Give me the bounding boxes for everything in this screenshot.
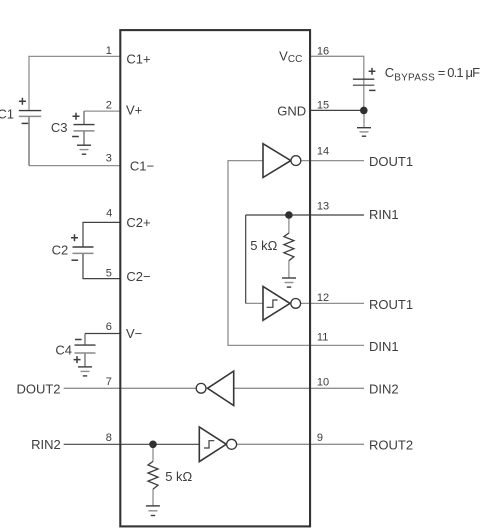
- svg-text:14: 14: [317, 145, 329, 157]
- svg-text:RIN1: RIN1: [369, 207, 399, 222]
- svg-text:C3: C3: [51, 120, 68, 135]
- svg-text:16: 16: [317, 45, 329, 57]
- svg-text:V−: V−: [126, 326, 142, 341]
- svg-text:7: 7: [106, 376, 112, 388]
- svg-text:4: 4: [106, 207, 112, 219]
- svg-text:DIN2: DIN2: [369, 381, 399, 396]
- svg-text:5: 5: [106, 268, 112, 280]
- svg-text:RIN2: RIN2: [31, 437, 61, 452]
- svg-text:8: 8: [106, 432, 112, 444]
- svg-text:C2+: C2+: [126, 215, 150, 230]
- svg-text:6: 6: [106, 321, 112, 333]
- svg-text:3: 3: [106, 153, 112, 165]
- svg-text:5 kΩ: 5 kΩ: [250, 238, 277, 253]
- svg-text:12: 12: [317, 292, 329, 304]
- svg-text:DOUT1: DOUT1: [369, 154, 413, 169]
- svg-text:5 kΩ: 5 kΩ: [165, 469, 192, 484]
- svg-text:ROUT2: ROUT2: [369, 437, 413, 452]
- svg-text:C2−: C2−: [126, 269, 150, 284]
- svg-text:C2: C2: [52, 243, 69, 258]
- svg-text:C4: C4: [55, 343, 72, 358]
- svg-text:1: 1: [106, 45, 112, 57]
- svg-text:CBYPASS = 0.1 μF: CBYPASS = 0.1 μF: [385, 65, 480, 83]
- svg-text:V+: V+: [126, 102, 142, 117]
- svg-text:C1−: C1−: [130, 159, 154, 174]
- svg-text:15: 15: [317, 100, 329, 112]
- svg-text:GND: GND: [277, 104, 306, 119]
- svg-text:13: 13: [317, 201, 329, 213]
- svg-text:ROUT1: ROUT1: [369, 297, 413, 312]
- svg-text:VCC: VCC: [279, 49, 302, 66]
- svg-text:C1+: C1+: [126, 51, 150, 66]
- svg-text:11: 11: [317, 332, 328, 344]
- svg-text:DOUT2: DOUT2: [16, 382, 60, 397]
- svg-text:DIN1: DIN1: [369, 339, 399, 354]
- svg-text:9: 9: [317, 432, 323, 444]
- svg-text:10: 10: [317, 376, 329, 388]
- svg-text:C1: C1: [0, 106, 14, 121]
- svg-text:2: 2: [106, 100, 112, 112]
